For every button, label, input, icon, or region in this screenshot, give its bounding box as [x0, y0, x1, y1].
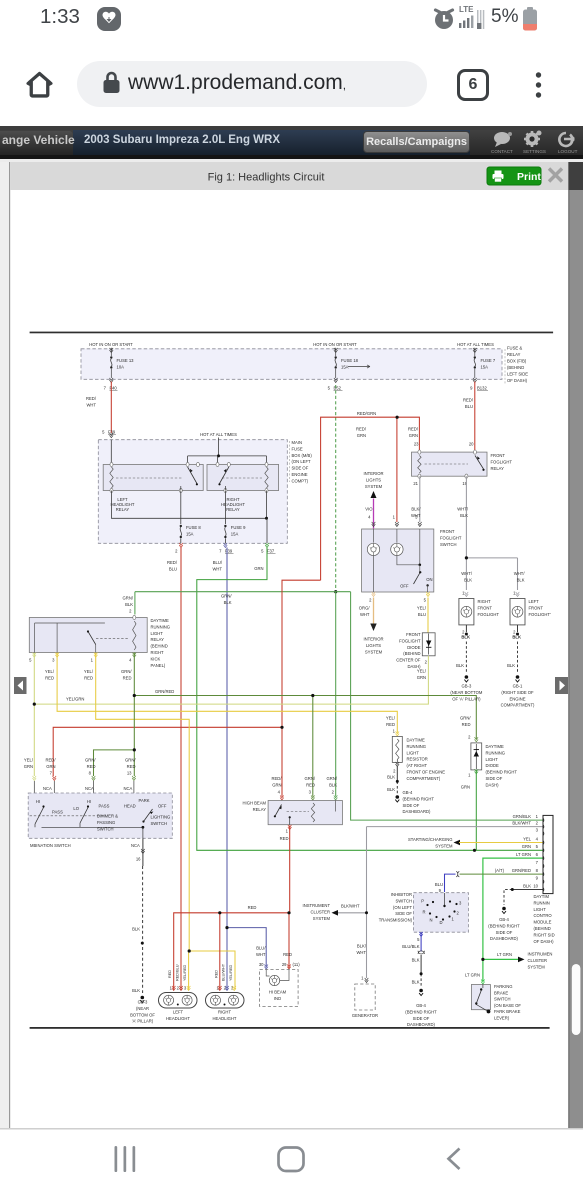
label GRN/BLK (HB)	[327, 776, 338, 788]
svg-text:COMPARTMENT): COMPARTMENT)	[407, 776, 441, 781]
daytime running light relay	[29, 615, 147, 652]
page left border	[9, 162, 10, 1128]
wire BLK (inhibitor to GB-4)	[420, 955, 422, 974]
left headlight	[159, 993, 198, 1009]
svg-text:PASS: PASS	[52, 810, 63, 815]
svg-text:RED/: RED/	[86, 396, 97, 401]
ground GB-3 (right fog)	[465, 675, 469, 679]
label RED/GRN (HB pin4)	[271, 776, 282, 788]
svg-text:HI BEAM: HI BEAM	[269, 990, 287, 995]
svg-text:LIGHTS: LIGHTS	[366, 643, 381, 648]
svg-text:PASS: PASS	[99, 804, 110, 809]
label WHT/BLK (left fog)	[514, 571, 526, 583]
dark top-right corner	[568, 162, 583, 190]
svg-text:RED/: RED/	[356, 427, 367, 432]
svg-text:HOT AT ALL TIMES: HOT AT ALL TIMES	[200, 432, 237, 437]
label BLK/WHT (generator)	[356, 944, 366, 956]
svg-text:SIDE OF: SIDE OF	[496, 930, 513, 935]
svg-text:INSTRUMEN: INSTRUMEN	[528, 952, 553, 957]
svg-text:BLK: BLK	[412, 979, 420, 984]
svg-text:LOGOUT: LOGOUT	[558, 149, 578, 154]
svg-text:HI: HI	[36, 799, 40, 804]
svg-text:VIO: VIO	[365, 507, 373, 512]
svg-text:RED: RED	[123, 676, 132, 681]
svg-text:15A: 15A	[231, 532, 239, 537]
svg-text:CONTACT: CONTACT	[491, 149, 513, 154]
svg-text:BLK: BLK	[387, 787, 395, 792]
diagram top border	[30, 332, 554, 334]
svg-text:HEADLIGHT: HEADLIGHT	[213, 1016, 237, 1021]
combination switch box	[28, 793, 172, 838]
svg-text:FRONT: FRONT	[529, 605, 544, 610]
main fuse box M/B (dashed)	[98, 440, 287, 544]
svg-text:LT GRN: LT GRN	[465, 972, 480, 977]
svg-text:SWITCH: SWITCH	[97, 826, 114, 831]
svg-text:LEFT: LEFT	[529, 599, 540, 604]
svg-text:RELAY: RELAY	[507, 352, 521, 357]
svg-text:WHT: WHT	[356, 950, 366, 955]
connector 9 B132	[470, 386, 488, 391]
left front foglight pin 1	[513, 591, 519, 597]
svg-text:SIDE OF: SIDE OF	[486, 776, 503, 781]
svg-text:OF 'A' PILLAR): OF 'A' PILLAR)	[452, 696, 481, 701]
connector wire labels	[512, 814, 532, 888]
svg-text:GB-4: GB-4	[403, 790, 413, 795]
svg-text:SYSTEM: SYSTEM	[365, 649, 383, 654]
F/B box label	[505, 346, 528, 386]
svg-text:HOT AT ALL TIMES: HOT AT ALL TIMES	[457, 342, 494, 347]
svg-text:GRN/: GRN/	[221, 594, 232, 599]
svg-text:NCA: NCA	[124, 786, 133, 791]
ground GB-4 (inhibitor)	[419, 989, 423, 993]
diode pin 1 / GRN	[461, 773, 471, 790]
wire GRN/BLK branches	[135, 592, 543, 820]
svg-text:SWITCH: SWITCH	[440, 542, 457, 547]
svg-text:FRONT: FRONT	[406, 632, 421, 637]
fog switch bottom pins	[369, 592, 430, 603]
svg-text:CLUSTER: CLUSTER	[528, 958, 548, 963]
comb switch wire labels	[24, 758, 137, 770]
svg-text:NCA: NCA	[85, 786, 94, 791]
svg-text:NCA: NCA	[43, 786, 52, 791]
svg-text:WHT: WHT	[86, 403, 96, 408]
svg-text:N: N	[429, 918, 432, 923]
connector row numbers	[533, 814, 538, 888]
svg-text:HOT IN ON OR START: HOT IN ON OR START	[89, 342, 133, 347]
svg-text:GRN/: GRN/	[460, 716, 471, 721]
wire ORG/WHT arrow	[373, 598, 375, 625]
svg-text:(BEHIND RIGHT: (BEHIND RIGHT	[486, 770, 518, 775]
left front foglight	[510, 599, 525, 625]
M/B internal bus	[188, 455, 267, 457]
svg-text:(BEHIND: (BEHIND	[534, 926, 551, 931]
svg-text:(BEHIND: (BEHIND	[507, 365, 524, 370]
svg-text:BLK: BLK	[132, 988, 140, 993]
instrument cluster arrow (LT GRN)	[518, 957, 525, 963]
wire BLU/BLK	[420, 932, 422, 951]
wire BLK (comb sw to GB-3)	[142, 838, 144, 866]
svg-text:GRN/: GRN/	[125, 758, 136, 763]
svg-text:BLK: BLK	[523, 883, 531, 888]
svg-text:BLK: BLK	[412, 957, 420, 962]
svg-text:YEL/: YEL/	[24, 758, 34, 763]
svg-text:RUNNING: RUNNING	[151, 624, 171, 629]
svg-text:SWITCH: SWITCH	[395, 898, 412, 903]
svg-text:LEVER): LEVER)	[494, 1016, 510, 1021]
fuse F9 15A	[224, 491, 246, 544]
label BLU / 9	[435, 882, 443, 893]
svg-text:BLU: BLU	[418, 612, 426, 617]
wire YEL/GRN	[34, 653, 428, 777]
label YEL/RED (pin1)	[84, 669, 94, 681]
fuse & relay box F/B (dashed)	[81, 349, 502, 380]
svg-text:RED: RED	[45, 676, 54, 681]
parking brake switch box	[471, 985, 490, 1014]
svg-text:FUSE 7: FUSE 7	[481, 358, 496, 363]
svg-text:B132: B132	[477, 386, 487, 391]
svg-text:LIGHTS: LIGHTS	[366, 477, 381, 482]
wire GRN main	[197, 548, 543, 851]
svg-text:F39: F39	[225, 549, 233, 554]
wire RED/WHT	[110, 382, 112, 434]
svg-text:RELAY: RELAY	[253, 807, 267, 812]
viewer left gutter	[0, 162, 9, 1128]
right headlight pins	[216, 985, 236, 990]
svg-text:F39: F39	[108, 430, 116, 435]
svg-text:ENGINE: ENGINE	[509, 696, 525, 701]
label BLU/WHT (meter)	[256, 946, 266, 958]
svg-text:KICK: KICK	[151, 656, 161, 661]
svg-text:GB-1: GB-1	[513, 684, 523, 689]
svg-text:GB-4: GB-4	[499, 917, 509, 922]
svg-text:INTERIOR: INTERIOR	[363, 637, 383, 642]
label WHT/BLK (pin19)	[457, 507, 469, 519]
svg-text:BRAKE: BRAKE	[494, 990, 508, 995]
svg-text:OF DASH): OF DASH)	[534, 939, 555, 944]
wire YEL/BLU	[427, 598, 429, 633]
svg-text:LIGHT: LIGHT	[151, 631, 164, 636]
svg-text:'A' PILLAR): 'A' PILLAR)	[132, 1019, 154, 1024]
svg-text:HOT IN ON OR START: HOT IN ON OR START	[313, 342, 357, 347]
svg-text:ENGINE: ENGINE	[292, 472, 308, 477]
svg-text:(BEHIND: (BEHIND	[403, 651, 420, 656]
next page arrow button	[555, 677, 568, 694]
svg-text:YEL/: YEL/	[45, 669, 55, 674]
svg-text:BOX (F/B): BOX (F/B)	[507, 359, 527, 364]
svg-text:LEFT: LEFT	[173, 1010, 184, 1015]
svg-text:RELAY: RELAY	[116, 507, 130, 512]
svg-text:PANEL): PANEL)	[151, 663, 166, 668]
svg-text:FRONT: FRONT	[491, 453, 506, 458]
svg-text:RED: RED	[283, 952, 292, 957]
svg-text:RUNNING: RUNNING	[407, 744, 427, 749]
svg-text:RED: RED	[87, 764, 96, 769]
fog switch pin labels	[368, 515, 421, 527]
label YEL/RED (pin3)	[45, 669, 55, 681]
svg-text:GRN: GRN	[272, 783, 281, 788]
scrollbar thumb	[572, 964, 581, 1035]
svg-text:OFF: OFF	[400, 583, 409, 588]
svg-text:FRONT: FRONT	[440, 529, 455, 534]
label GRN/RED (diode)	[460, 716, 471, 740]
wire GRN (diode down)	[475, 770, 477, 850]
svg-text:(AT RIGHT: (AT RIGHT	[407, 763, 428, 768]
ground GB-3 (comb switch)	[141, 996, 145, 1000]
svg-text:SIDE OF: SIDE OF	[403, 803, 420, 808]
svg-text:15A: 15A	[341, 365, 349, 370]
svg-text:DAYTIM: DAYTIM	[534, 894, 550, 899]
svg-text:BOTTOM OF: BOTTOM OF	[130, 1012, 155, 1017]
svg-text:MAIN: MAIN	[292, 440, 302, 445]
svg-text:WHT: WHT	[360, 612, 370, 617]
svg-text:SYSTEM: SYSTEM	[528, 964, 546, 969]
svg-text:(RIGHT SIDE OF: (RIGHT SIDE OF	[501, 690, 534, 695]
meter pins	[264, 964, 290, 969]
parking brake pin	[481, 982, 485, 984]
label BLK (x2)	[412, 957, 420, 984]
svg-text:RUNNING: RUNNING	[486, 750, 506, 755]
svg-text:FOGLIGHT: FOGLIGHT	[478, 612, 500, 617]
wire VIO	[373, 499, 375, 529]
wire BLU/WHT long	[227, 548, 266, 991]
svg-text:(ON LEFT: (ON LEFT	[393, 905, 413, 910]
svg-text:STARTING/CHARGING: STARTING/CHARGING	[408, 837, 453, 842]
svg-text:16: 16	[136, 857, 141, 862]
svg-text:GRN: GRN	[461, 785, 470, 790]
svg-text:FUSE 13: FUSE 13	[117, 358, 135, 363]
combination meter box	[260, 970, 299, 1007]
svg-text:CONTRO: CONTRO	[534, 913, 553, 918]
svg-text:SYSTEM: SYSTEM	[313, 916, 331, 921]
ground GB-4 (module)	[502, 907, 506, 911]
wire GRN/BLK dashed	[335, 385, 337, 592]
svg-text:GB-3: GB-3	[462, 684, 472, 689]
svg-text:GB-3: GB-3	[138, 1000, 148, 1005]
starting/charging arrow + YEL row4	[454, 840, 461, 846]
svg-text:FOGLIGHT: FOGLIGHT	[399, 638, 421, 643]
connector 5 B52	[328, 386, 343, 391]
DRL diode	[471, 737, 482, 774]
svg-text:RED/GRN: RED/GRN	[357, 411, 376, 416]
svg-text:SIDE OF: SIDE OF	[292, 466, 309, 471]
android recents icon	[115, 1146, 136, 1172]
svg-text:IND: IND	[274, 996, 281, 1001]
svg-text:BOX (M/B): BOX (M/B)	[292, 453, 313, 458]
wire BLK/WHT row2	[337, 827, 543, 978]
svg-text:13: 13	[127, 771, 132, 776]
high beam relay box	[268, 801, 342, 825]
svg-text:HIGH BEAM: HIGH BEAM	[243, 801, 267, 806]
svg-text:RELAY: RELAY	[151, 637, 165, 642]
svg-text:(NEAR BOTTOM: (NEAR BOTTOM	[450, 690, 483, 695]
svg-text:R: R	[422, 910, 425, 915]
label YEL/GRN (right)	[417, 669, 427, 681]
svg-text:FRONT: FRONT	[478, 605, 493, 610]
right headlight vertical labels	[214, 963, 233, 981]
svg-text:(ON BASE OF: (ON BASE OF	[494, 1003, 521, 1008]
right headlight relay	[207, 462, 279, 492]
svg-text:CLUSTER: CLUSTER	[310, 909, 330, 914]
inline connector row8	[456, 871, 459, 877]
connector 7 F40	[104, 386, 118, 391]
wire GRN/RED net	[94, 653, 477, 797]
M/B hot feed stub	[218, 438, 220, 456]
svg-text:GRN: GRN	[254, 566, 263, 571]
comb switch pin numbers	[50, 771, 133, 776]
svg-text:BLK: BLK	[460, 513, 468, 518]
svg-text:WHT: WHT	[212, 567, 222, 572]
label RED/WHT	[86, 396, 97, 408]
wire GRN/RED row8 + BLU	[460, 873, 544, 875]
label STARTING/CHARGING SYSTEM	[408, 837, 453, 849]
svg-text:RED: RED	[306, 783, 315, 788]
svg-text:YEL/RED: YEL/RED	[183, 964, 187, 981]
HB relay pin labels	[278, 790, 338, 801]
svg-text:GRN/: GRN/	[305, 776, 316, 781]
comb switch pins	[33, 776, 136, 793]
svg-text:RIGHT: RIGHT	[151, 650, 164, 655]
svg-text:15A: 15A	[481, 365, 489, 370]
DRL resistor	[392, 731, 402, 766]
svg-text:YEL/: YEL/	[417, 669, 427, 674]
svg-text:WHT/: WHT/	[461, 571, 473, 576]
svg-text:(A/T): (A/T)	[495, 868, 505, 873]
comb switch NCA labels	[43, 786, 133, 791]
svg-text:BLK/: BLK/	[357, 944, 367, 949]
wire YEL/RED a (to resistor)	[57, 653, 397, 733]
svg-text:RED/: RED/	[45, 758, 56, 763]
svg-text:Print: Print	[517, 171, 541, 183]
svg-text:RESISTOR: RESISTOR	[407, 757, 428, 762]
front foglight diode	[422, 633, 435, 656]
svg-text:SETTINGS: SETTINGS	[523, 149, 546, 154]
fog relay pin labels	[413, 442, 474, 487]
svg-text:BLU/BLK: BLU/BLK	[402, 944, 419, 949]
svg-text:DAYTIME: DAYTIME	[151, 618, 170, 623]
svg-text:WHT: WHT	[256, 952, 266, 957]
ground GB-1 (left fog)	[516, 675, 520, 679]
svg-text:P: P	[421, 899, 424, 904]
svg-text:DIMMER &: DIMMER &	[97, 814, 118, 819]
svg-text:SIDE OF: SIDE OF	[395, 911, 412, 916]
svg-text:BLK/WHT: BLK/WHT	[512, 820, 531, 825]
svg-text:20: 20	[469, 442, 474, 447]
svg-text:FUSE: FUSE	[292, 446, 303, 451]
svg-text:YEL/GRN: YEL/GRN	[66, 697, 84, 702]
svg-text:Fig 1: Headlights Circuit: Fig 1: Headlights Circuit	[208, 172, 325, 184]
fuse F18 15A	[334, 348, 370, 383]
svg-text:RELAY: RELAY	[491, 466, 505, 471]
print button	[487, 167, 541, 185]
android home icon	[279, 1148, 304, 1172]
svg-text:GRN/: GRN/	[85, 758, 96, 763]
svg-text:RED: RED	[84, 676, 93, 681]
svg-text:GENERATOR: GENERATOR	[352, 1013, 378, 1018]
wire RED/BLU (fuse7 to fog relay)	[474, 382, 476, 452]
svg-text:F40: F40	[110, 386, 118, 391]
page bottom separator	[0, 1128, 583, 1130]
M/B output pin 2	[175, 518, 275, 553]
svg-text:FUSE 8: FUSE 8	[186, 525, 201, 530]
svg-text:OF DASH): OF DASH)	[507, 378, 528, 383]
wire BLK/WHT (pin21)	[419, 476, 421, 522]
generator pin 1	[361, 976, 368, 983]
label GRN/RED (HB)	[305, 776, 316, 788]
label GRN/BLK (mid)	[221, 594, 232, 606]
prev page arrow button	[14, 677, 27, 694]
svg-text:RUNNIN: RUNNIN	[534, 900, 550, 905]
label YEL/RED (resistor)	[386, 716, 396, 734]
label WHT/BLK (right fog)	[461, 571, 473, 583]
M/B lower bus	[112, 491, 267, 519]
wire BLK row10	[512, 889, 543, 891]
close X	[549, 169, 562, 182]
svg-text:23: 23	[414, 442, 419, 447]
svg-text:(NEAR: (NEAR	[136, 1006, 149, 1011]
svg-text:GRN: GRN	[24, 764, 33, 769]
svg-text:CENTER OF: CENTER OF	[396, 658, 421, 663]
svg-text:GRN: GRN	[417, 675, 426, 680]
svg-text:FRONT OF ENGINE: FRONT OF ENGINE	[407, 770, 446, 775]
comb switch pin 16	[131, 843, 145, 862]
svg-text:TRANSMISSION): TRANSMISSION)	[379, 918, 413, 923]
svg-text:BLK/: BLK/	[411, 507, 421, 512]
svg-text:BLU: BLU	[435, 882, 443, 887]
label RED/BLU	[463, 398, 474, 410]
svg-text:LIGHT: LIGHT	[534, 907, 547, 912]
generator box	[355, 984, 375, 1010]
svg-text:LEFT SIDE: LEFT SIDE	[507, 372, 528, 377]
svg-text:YEL/RED: YEL/RED	[229, 964, 233, 981]
resistor pin 2 / BLK	[387, 769, 396, 793]
svg-text:(BEHIND: (BEHIND	[151, 644, 168, 649]
fuse F7 15A	[473, 348, 496, 383]
instrument cluster arrow (BLK/WHT)	[332, 910, 339, 916]
interior lights system (upper)	[363, 471, 383, 498]
svg-text:GRN: GRN	[46, 764, 55, 769]
label GRN/BLK (DRL)	[123, 596, 134, 614]
label ORG/WHT	[359, 606, 371, 618]
svg-text:FUSE 18: FUSE 18	[341, 358, 359, 363]
svg-text:MODULE: MODULE	[534, 920, 552, 925]
svg-text:LT GRN: LT GRN	[497, 952, 512, 957]
svg-text:BLK: BLK	[329, 783, 337, 788]
svg-text:NCA: NCA	[131, 843, 140, 848]
wire RED/BLU long	[180, 548, 182, 991]
svg-text:MBINATION SWITCH: MBINATION SWITCH	[30, 843, 71, 848]
front foglight relay	[412, 450, 488, 478]
label YEL/BLU	[417, 606, 427, 618]
wire RED/GRN upper	[53, 417, 419, 796]
svg-text:RIGHT: RIGHT	[478, 599, 491, 604]
svg-text:SIDE OF: SIDE OF	[413, 1016, 430, 1021]
svg-text:DAYTIME: DAYTIME	[486, 744, 505, 749]
ground GB-4 (resistor)	[396, 795, 400, 799]
svg-text:GRN/RED: GRN/RED	[512, 868, 531, 873]
svg-text:DASH): DASH)	[486, 782, 500, 787]
svg-text:29: 29	[282, 962, 287, 967]
left headlight relay	[103, 462, 203, 492]
svg-text:FUSE &: FUSE &	[507, 346, 522, 351]
svg-text:LT GRN: LT GRN	[516, 852, 531, 857]
figure header bar	[10, 162, 568, 190]
svg-text:(ON LEFT: (ON LEFT	[292, 459, 312, 464]
svg-text:GRN/: GRN/	[123, 596, 134, 601]
fuse F8 15A	[180, 491, 202, 544]
svg-text:RED: RED	[248, 905, 257, 910]
svg-text:COMPT): COMPT)	[292, 478, 309, 483]
wire BLK (left fog to GB-1)	[517, 625, 519, 632]
